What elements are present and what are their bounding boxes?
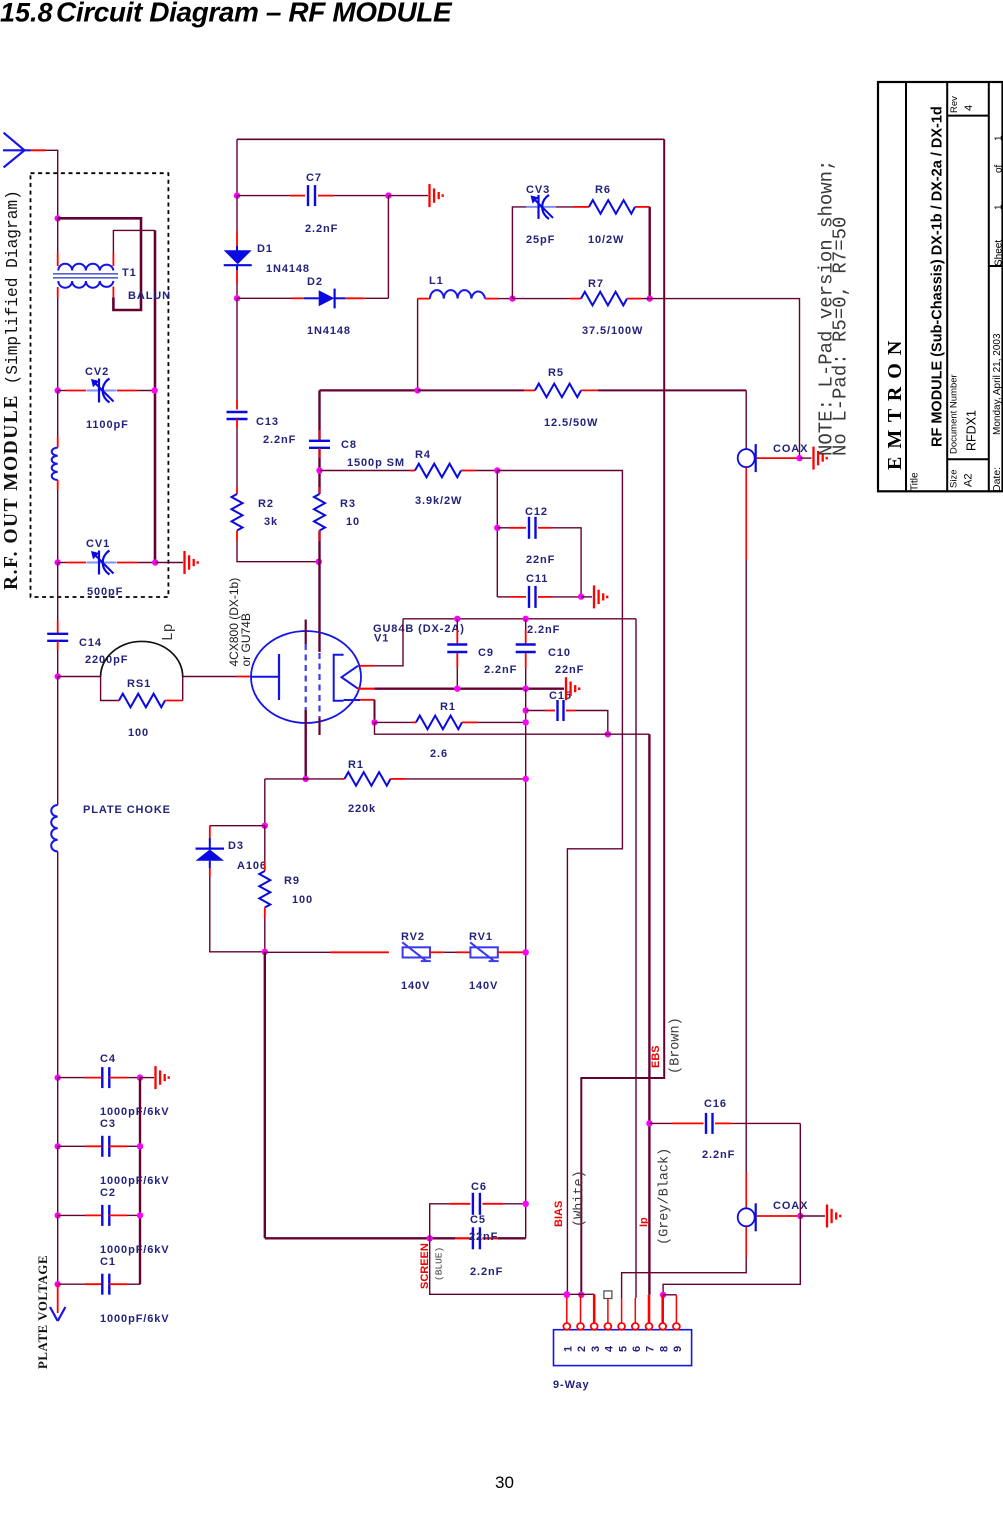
inductor L1 xyxy=(430,290,485,299)
resistor R2 xyxy=(232,494,243,531)
port PLATE VOLTAGE arrow xyxy=(50,1307,65,1321)
wire D3 bottom leg xyxy=(210,877,265,952)
wire rail C2-C1 xyxy=(57,1215,59,1284)
wire CV2 row left xyxy=(58,390,66,392)
wire CV2 row right xyxy=(117,390,137,392)
title block line Doc/Sheet strip xyxy=(988,82,990,491)
capacitor C2 row xyxy=(58,1214,85,1216)
svg-text:1000pF/6kV: 1000pF/6kV xyxy=(100,1106,170,1118)
wire C13 to R2 xyxy=(236,419,238,428)
tube V1 cathode xyxy=(251,676,279,678)
wire T1 primary right pin (red) xyxy=(112,253,114,266)
svg-text:4: 4 xyxy=(604,1345,616,1352)
svg-text:R5: R5 xyxy=(548,367,564,379)
wire rail C3-C2 xyxy=(57,1146,59,1215)
svg-text:2: 2 xyxy=(576,1345,588,1352)
wire T1 primary right hook xyxy=(113,230,155,253)
diode D3 xyxy=(209,826,211,838)
svg-text:12.5/50W: 12.5/50W xyxy=(544,417,598,429)
pin 5 xyxy=(618,1323,625,1330)
node cathode junction xyxy=(371,719,377,725)
wire CV2 to inductor xyxy=(57,391,59,438)
capacitor C9 xyxy=(456,619,458,630)
svg-text:R4: R4 xyxy=(415,449,431,461)
node C5 left junction xyxy=(427,1235,433,1241)
ground (C11) xyxy=(594,585,607,608)
svg-text:Monday, April 21, 2003: Monday, April 21, 2003 xyxy=(992,333,1003,435)
svg-text:1: 1 xyxy=(994,204,1003,210)
svg-text:30: 30 xyxy=(495,1473,514,1492)
svg-text:3k: 3k xyxy=(264,516,278,528)
svg-text:C6: C6 xyxy=(471,1181,487,1193)
tube V1 envelope xyxy=(251,631,361,723)
wire C16 row xyxy=(649,1122,672,1124)
svg-text:1N4148: 1N4148 xyxy=(307,325,351,337)
diode D1 xyxy=(224,246,252,270)
svg-text:10: 10 xyxy=(346,516,360,528)
node CV1 right junction xyxy=(152,559,158,565)
svg-text:8: 8 xyxy=(658,1345,670,1352)
svg-text:of: of xyxy=(994,164,1003,173)
svg-text:C15: C15 xyxy=(549,690,572,702)
resistor R9 column xyxy=(264,826,266,862)
wire D1 column to C13 xyxy=(236,298,238,400)
title block line Size box xyxy=(947,458,989,460)
wire C6 bypass left leg xyxy=(430,1204,450,1239)
wire CV3 to R6 xyxy=(556,206,573,208)
transformer T1 xyxy=(53,264,118,288)
svg-text:Rev: Rev xyxy=(949,96,960,113)
antenna ANT xyxy=(3,133,31,168)
wire choke to C4 xyxy=(57,851,59,1077)
svg-text:D2: D2 xyxy=(307,276,323,288)
wire COAX1 pin to ground (red) xyxy=(757,457,800,459)
title block line Rev box xyxy=(947,115,989,117)
svg-text:PLATE CHOKE: PLATE CHOKE xyxy=(83,804,171,816)
node C3 left junction xyxy=(55,1143,61,1149)
svg-text:E M T R O N: E M T R O N xyxy=(884,339,906,470)
node C4 left junction xyxy=(55,1074,61,1080)
wire R6 to R7 node xyxy=(635,206,650,208)
svg-text:C13: C13 xyxy=(256,416,279,428)
node C6 right junction xyxy=(523,1201,529,1207)
svg-text:COAX: COAX xyxy=(773,1200,808,1212)
wire pin8 to pin9 xyxy=(663,1294,676,1296)
resistor R3 on bus xyxy=(319,487,321,494)
resistor R1 (2.6) xyxy=(416,716,462,730)
tube V1 grid G2 (dashed) xyxy=(318,653,320,718)
svg-text:2200pF: 2200pF xyxy=(85,654,128,666)
wire node A to T1 primary left xyxy=(57,218,59,253)
node C12 left junction xyxy=(494,525,500,531)
ground (CV1) xyxy=(185,551,198,574)
wire top loop horizontal xyxy=(237,138,664,140)
svg-text:D1: D1 xyxy=(257,243,273,255)
wire screen drop to pin row xyxy=(430,1238,595,1294)
pin 8 xyxy=(659,1323,666,1330)
wire Ip thick drop xyxy=(648,734,650,1295)
wire CV3 branch riser xyxy=(512,207,527,299)
capacitor C7 xyxy=(308,185,315,206)
node C7 left junction xyxy=(234,192,240,198)
resistor RS1 frame xyxy=(101,677,117,701)
node COAX1 junction xyxy=(796,455,802,461)
svg-text:1000pF/6kV: 1000pF/6kV xyxy=(100,1175,170,1187)
node pin2 junction xyxy=(578,1292,584,1298)
svg-text:V1: V1 xyxy=(374,633,389,645)
svg-text:7: 7 xyxy=(645,1345,657,1352)
capacitor C5 on thick rail xyxy=(455,1237,470,1239)
svg-text:Circuit Diagram – RF MODULE: Circuit Diagram – RF MODULE xyxy=(56,0,453,28)
wire CV1 to C14 xyxy=(57,563,59,622)
wire RS1 row xyxy=(58,676,101,678)
wire D1 column top xyxy=(236,139,238,195)
inductor L (output network) xyxy=(52,448,58,480)
svg-text:140V: 140V xyxy=(401,980,430,992)
tube V1 grid G1 (dashed) xyxy=(305,644,307,710)
svg-text:1100pF: 1100pF xyxy=(86,419,129,431)
node D3 top junction xyxy=(262,823,268,829)
pin 7 xyxy=(646,1323,653,1330)
wire pin1 (red) xyxy=(566,1295,568,1324)
node C9 bottom junction xyxy=(454,686,460,692)
connector COAX (output) xyxy=(738,444,756,472)
title block outer border xyxy=(878,82,1003,491)
wire R7 row to COAX drop xyxy=(650,299,800,459)
node C15 output junction xyxy=(605,731,611,737)
inductor plate choke xyxy=(51,805,57,851)
svg-text:C7: C7 xyxy=(306,172,322,184)
svg-text:22nF: 22nF xyxy=(526,554,555,566)
svg-text:C11: C11 xyxy=(526,573,548,585)
node C10 bottom junction xyxy=(523,686,529,692)
wire plate net drop to pin6 xyxy=(635,619,637,1298)
wire EBS main vertical xyxy=(581,139,664,1295)
wire R7 row xyxy=(512,298,570,300)
wire CV1 row left xyxy=(58,562,66,564)
svg-text:37.5/100W: 37.5/100W xyxy=(582,325,643,337)
node R7 right junction xyxy=(647,295,653,301)
svg-text:2.2nF: 2.2nF xyxy=(527,624,560,636)
node C10 top junction xyxy=(523,616,529,622)
wire pin7 (red thick) xyxy=(648,1295,651,1324)
svg-text:1: 1 xyxy=(994,135,1003,141)
svg-text:(BLUE): (BLUE) xyxy=(434,1247,445,1281)
node R1/screen junction xyxy=(523,719,529,725)
svg-text:4: 4 xyxy=(963,105,975,111)
svg-text:CV2: CV2 xyxy=(85,366,109,378)
svg-text:15.8: 15.8 xyxy=(0,0,53,28)
node CV2 left junction xyxy=(55,387,61,393)
wire C7 row xyxy=(237,195,290,197)
node COAX2 junction xyxy=(797,1213,803,1219)
wire cathode to Ip line xyxy=(375,722,650,734)
svg-text:CV1: CV1 xyxy=(86,538,110,550)
svg-text:C2: C2 xyxy=(100,1187,116,1199)
capacitor C8 on bus xyxy=(319,430,321,441)
svg-text:C4: C4 xyxy=(100,1053,116,1065)
node R9 bottom junction xyxy=(262,949,268,955)
node R2/bus junction xyxy=(316,559,322,565)
wire thick loop node A to T1 secondary right xyxy=(58,218,141,310)
wire T1 secondary left down to CV2 xyxy=(57,287,59,298)
wire L1 left leg xyxy=(417,299,419,391)
resistor R7 xyxy=(581,292,627,306)
resistor R4 xyxy=(415,464,461,478)
wire RV row xyxy=(265,951,330,953)
tube V1 grid G2 bottom stub xyxy=(318,718,320,735)
svg-text:RS1: RS1 xyxy=(127,678,151,690)
svg-text:R1: R1 xyxy=(348,759,364,771)
node CV2 right junction xyxy=(151,387,157,393)
svg-text:25pF: 25pF xyxy=(526,234,555,246)
capacitor C10 xyxy=(525,619,527,630)
wire COAX2 pin to junction (red) xyxy=(757,1215,801,1217)
node CV1 left junction xyxy=(55,559,61,565)
svg-text:RFDX1: RFDX1 xyxy=(965,410,979,451)
capacitor C6 row xyxy=(450,1203,470,1205)
wire heater mid line thick to ground xyxy=(358,688,375,690)
wire cathode pin to R1 xyxy=(360,699,375,701)
wire pin4 (red) xyxy=(607,1299,609,1324)
pin 6 xyxy=(632,1323,639,1330)
svg-text:Title: Title xyxy=(910,472,921,491)
capacitor C12 row xyxy=(497,527,509,529)
svg-text:(White): (White) xyxy=(573,1170,588,1227)
svg-text:C1: C1 xyxy=(100,1256,116,1268)
svg-text:SCREEN: SCREEN xyxy=(419,1243,431,1289)
wire T1 secondary right pin (red) xyxy=(112,287,114,298)
wire pin8 (red thick) xyxy=(661,1295,664,1324)
varistor RV2 xyxy=(402,942,431,961)
svg-text:or GU74B: or GU74B xyxy=(239,613,253,666)
wire C4 to ground xyxy=(140,1077,154,1079)
svg-text:R3: R3 xyxy=(340,498,356,510)
capacitor C4 row xyxy=(58,1077,85,1079)
varistor RV1 xyxy=(470,942,499,961)
svg-text:RV1: RV1 xyxy=(469,931,493,943)
wire D3 top row xyxy=(210,825,265,827)
svg-text:R7: R7 xyxy=(588,278,604,290)
wire COAX shield column xyxy=(745,468,747,561)
wire C7 to ground xyxy=(388,195,428,197)
node D2 left junction xyxy=(234,295,240,301)
svg-text:2.2nF: 2.2nF xyxy=(702,1149,735,1161)
capacitor C1 row xyxy=(58,1283,85,1285)
svg-text:EBS: EBS xyxy=(650,1045,662,1068)
svg-text:6: 6 xyxy=(631,1345,643,1352)
wire C7 node to D1 xyxy=(236,196,238,231)
ground (COAX1) xyxy=(814,447,827,470)
resistor R1 (220k) xyxy=(345,772,391,786)
wire RS1 to tube cathode xyxy=(183,676,238,678)
svg-text:500pF: 500pF xyxy=(87,586,123,598)
tube V1 anode bracket xyxy=(334,655,344,701)
svg-text:RV2: RV2 xyxy=(401,931,425,943)
pin 3 xyxy=(591,1323,598,1330)
svg-text:L1: L1 xyxy=(429,275,444,287)
wire G2 bus xyxy=(318,390,320,440)
svg-text:C10: C10 xyxy=(548,647,571,659)
pin 4 xyxy=(605,1323,612,1330)
svg-text:Sheet: Sheet xyxy=(994,240,1003,266)
node C16 left junction xyxy=(646,1120,652,1126)
connector COAX (input) xyxy=(738,1203,756,1231)
capacitor C15 row xyxy=(526,710,545,712)
svg-text:1000pF/6kV: 1000pF/6kV xyxy=(100,1313,170,1325)
svg-text:1: 1 xyxy=(563,1345,575,1352)
node C7 right junction xyxy=(385,192,391,198)
svg-text:C8: C8 xyxy=(341,439,357,451)
svg-text:3.9k/2W: 3.9k/2W xyxy=(415,495,462,507)
wire C12/C11 left column xyxy=(496,471,498,597)
node C3 right junction xyxy=(137,1143,143,1149)
node CV3 bottom junction xyxy=(509,295,515,301)
wire plate top line xyxy=(403,618,636,620)
svg-text:R1: R1 xyxy=(440,701,456,713)
node A junction xyxy=(55,215,61,221)
pin 1 xyxy=(563,1323,570,1330)
wire D2 to C7 node riser xyxy=(387,196,389,299)
diode D2 xyxy=(304,289,345,309)
svg-text:PLATE VOLTAGE: PLATE VOLTAGE xyxy=(36,1255,50,1369)
svg-text:C12: C12 xyxy=(525,506,548,518)
wire COAX2 shield to pin5 xyxy=(745,1227,747,1257)
wire screen column x=525.7 xyxy=(525,689,527,1239)
node C9 top junction xyxy=(454,616,460,622)
wire R1 (2.6) row xyxy=(375,721,413,723)
svg-text:C5: C5 xyxy=(470,1214,486,1226)
node C15 left junction xyxy=(523,707,529,713)
node C11 right junction xyxy=(578,593,584,599)
node pins 1-2 feeder junctions xyxy=(564,1291,570,1297)
wire anode pin riser xyxy=(360,665,375,667)
wire T1 primary left pin (red) xyxy=(57,253,59,266)
capacitor CV3 (variable) xyxy=(526,195,556,219)
wire L1 row / D2 gap corner xyxy=(387,297,389,299)
title block line Sheet box xyxy=(989,265,1003,267)
inductor Lp (parasitic choke arc) xyxy=(101,641,183,676)
title block line Title/Doc xyxy=(946,82,948,491)
node L1/R5 junction xyxy=(414,387,420,393)
wire BIAS column from R4 node xyxy=(497,471,622,1295)
wire screen thick bottom rail xyxy=(264,952,266,1239)
resistor R6 xyxy=(589,200,635,214)
node RV1/screen junction xyxy=(523,949,529,955)
wire C14 to RS1 node xyxy=(57,641,59,650)
wire plate voltage entry (red) xyxy=(57,1284,59,1313)
wire COAX1 drop xyxy=(745,390,747,448)
svg-text:C16: C16 xyxy=(704,1098,727,1110)
svg-text:2.6: 2.6 xyxy=(430,748,448,760)
wire CV1 row right xyxy=(117,562,137,564)
wire pin2 (red) xyxy=(580,1295,582,1324)
svg-text:(Grey/Black): (Grey/Black) xyxy=(658,1148,673,1245)
wire pin6 (red) xyxy=(634,1298,636,1324)
svg-text:CV3: CV3 xyxy=(526,184,550,196)
node R4 output junction xyxy=(494,467,500,473)
svg-text:22nF: 22nF xyxy=(555,664,584,676)
wire ladder right rail xyxy=(139,1078,141,1285)
svg-text:140V: 140V xyxy=(469,980,498,992)
svg-text:2.2nF: 2.2nF xyxy=(263,434,296,446)
svg-text:R.F. OUT MODULE (Simplified Di: R.F. OUT MODULE (Simplified Diagram) xyxy=(1,190,22,590)
node R4 junction on bus xyxy=(316,467,322,473)
wire 220k left leg xyxy=(264,779,266,826)
svg-text:10/2W: 10/2W xyxy=(588,234,624,246)
svg-text:COAX: COAX xyxy=(773,443,808,455)
tube V1 grid G1 top stub xyxy=(305,620,307,645)
capacitor C3 row xyxy=(58,1145,85,1147)
capacitor C14 xyxy=(47,634,68,641)
tube V1 heater chevron xyxy=(342,666,359,689)
node C2 left junction xyxy=(55,1212,61,1218)
svg-text:100: 100 xyxy=(292,894,313,906)
wire C16 right drop to pin8 row xyxy=(663,1123,800,1294)
svg-text:BIAS: BIAS xyxy=(553,1201,565,1227)
wire CV1 to ground xyxy=(155,562,183,564)
svg-text:C3: C3 xyxy=(100,1118,116,1130)
svg-text:1500p SM: 1500p SM xyxy=(347,457,405,469)
wire D2 row left xyxy=(237,297,292,299)
wire L1 to CV3 node xyxy=(485,298,498,300)
wire right rail thick to CV2/CV1 xyxy=(154,230,157,562)
wire antenna to node A xyxy=(46,150,58,218)
svg-text:2.2nF: 2.2nF xyxy=(305,223,338,235)
svg-text:2.2nF: 2.2nF xyxy=(484,664,517,676)
pin 9 xyxy=(673,1323,680,1330)
svg-text:T1: T1 xyxy=(122,267,137,279)
node pin1 junction xyxy=(564,1292,570,1298)
svg-text:R9: R9 xyxy=(284,875,300,887)
wire inductor to CV1 xyxy=(57,480,59,490)
pin 2 xyxy=(577,1323,584,1330)
node G1/R1 junction xyxy=(303,776,309,782)
svg-text:100: 100 xyxy=(128,727,149,739)
svg-text:2.2nF: 2.2nF xyxy=(470,1266,503,1278)
svg-text:9: 9 xyxy=(672,1345,684,1352)
capacitor CV2 (variable) xyxy=(87,379,117,403)
svg-text:RF MODULE (Sub-Chassis) DX-1b: RF MODULE (Sub-Chassis) DX-1b / DX-2a / … xyxy=(930,106,946,447)
svg-text:D3: D3 xyxy=(228,840,244,852)
svg-text:R6: R6 xyxy=(595,184,611,196)
svg-text:220k: 220k xyxy=(348,803,376,815)
svg-text:Size: Size xyxy=(949,470,960,488)
title block line EMTRON/Title xyxy=(905,82,907,491)
capacitor C13 xyxy=(227,412,248,419)
ground (heater line) xyxy=(566,677,579,700)
resistor R5 xyxy=(535,384,581,398)
svg-text:BALUN: BALUN xyxy=(128,290,171,302)
capacitor C11 row xyxy=(497,596,509,598)
svg-text:C9: C9 xyxy=(478,647,494,659)
node 220k/screen junction xyxy=(523,776,529,782)
node C1 left junction xyxy=(55,1281,61,1287)
node pin8 junction xyxy=(660,1292,666,1298)
svg-text:5: 5 xyxy=(617,1345,629,1352)
svg-text:No L-Pad: R5=0, R7=50: No L-Pad: R5=0, R7=50 xyxy=(830,217,852,456)
wire G1 drop thick xyxy=(305,710,307,779)
svg-text:Document Number: Document Number xyxy=(949,374,960,454)
ground (C4) xyxy=(156,1066,169,1089)
svg-text:3: 3 xyxy=(590,1345,602,1352)
capacitor C16 xyxy=(706,1113,713,1134)
svg-text:1N4148: 1N4148 xyxy=(266,263,310,275)
wire R1 (220k) row xyxy=(265,778,341,780)
svg-text:Ip: Ip xyxy=(638,1217,650,1227)
ground (COAX2) xyxy=(827,1205,840,1228)
node RS1 left junction xyxy=(55,673,61,679)
